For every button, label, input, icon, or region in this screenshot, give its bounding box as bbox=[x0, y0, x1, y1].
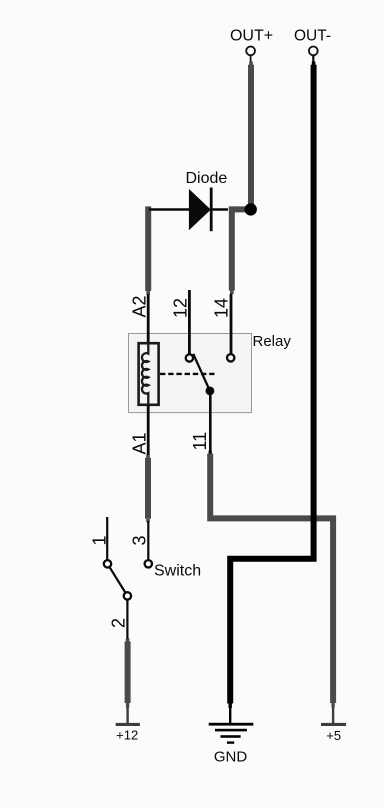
relay armature dashed link bbox=[160, 373, 215, 375]
junction dot at OUT+/diode/relay-14 node bbox=[245, 203, 257, 215]
relay coil winding bbox=[142, 344, 148, 405]
relay armature contact arm bbox=[193, 354, 210, 391]
ground symbol GND bbox=[209, 723, 254, 744]
relay contact 12 circle bbox=[186, 354, 193, 361]
terminal OUT- bbox=[309, 47, 318, 63]
relay pin A1 lead bbox=[147, 405, 150, 455]
relay coil rectangle bbox=[139, 343, 159, 405]
wire relay pin 11 to +5 terminal (thick gray) bbox=[208, 451, 212, 455]
relay pin A2 lead bbox=[147, 294, 150, 343]
switch contact 1 circle bbox=[104, 560, 111, 567]
svg-text:OUT+: OUT+ bbox=[230, 28, 273, 45]
svg-text:12: 12 bbox=[170, 298, 190, 318]
svg-text:GND: GND bbox=[214, 748, 248, 765]
relay pin 11 lead bbox=[209, 395, 212, 454]
svg-text:OUT-: OUT- bbox=[294, 28, 331, 45]
svg-text:14: 14 bbox=[212, 298, 232, 318]
svg-text:Switch: Switch bbox=[154, 563, 201, 580]
switch pin 1 lead bbox=[106, 517, 108, 560]
switch pin 2 lead bbox=[126, 600, 128, 639]
+5 power terminal bbox=[321, 723, 346, 726]
svg-text:2: 2 bbox=[109, 618, 129, 628]
svg-text:Diode: Diode bbox=[186, 170, 228, 187]
svg-text:A2: A2 bbox=[130, 295, 150, 317]
wire relay pin A1 to switch pin 3 (thick gray) bbox=[146, 455, 150, 458]
wire diode anode to relay pin A2 (thick gray) bbox=[145, 206, 151, 291]
svg-text:+12: +12 bbox=[116, 728, 138, 743]
switch pin 3 lead bbox=[147, 521, 149, 560]
svg-text:+5: +5 bbox=[326, 728, 341, 743]
relay box bbox=[129, 334, 252, 413]
switch armature bbox=[108, 564, 128, 596]
+12 power terminal bbox=[116, 723, 140, 726]
diode D1 bbox=[149, 188, 228, 232]
relay pin 12 lead bbox=[188, 290, 191, 354]
wire OUT+ to diode junction (thick gray) bbox=[249, 62, 253, 66]
svg-text:A1: A1 bbox=[130, 432, 150, 454]
relay contact 14 circle bbox=[227, 354, 234, 361]
wire switch pin 2 to +12 terminal (thick gray) bbox=[126, 638, 130, 641]
relay common pivot dot bbox=[206, 387, 215, 396]
switch contact 3 circle bbox=[145, 560, 152, 567]
terminal OUT+ bbox=[246, 47, 255, 63]
wire diode cathode to relay pin 14 (thick gray elbow) bbox=[232, 209, 247, 290]
svg-text:3: 3 bbox=[130, 535, 150, 545]
svg-text:1: 1 bbox=[90, 535, 110, 545]
switch contact 2 circle bbox=[124, 592, 131, 599]
wire OUT- to GND terminal (thick black) bbox=[312, 62, 316, 66]
svg-text:11: 11 bbox=[190, 432, 210, 451]
svg-text:Relay: Relay bbox=[253, 333, 292, 350]
relay pin 14 lead bbox=[230, 294, 233, 354]
